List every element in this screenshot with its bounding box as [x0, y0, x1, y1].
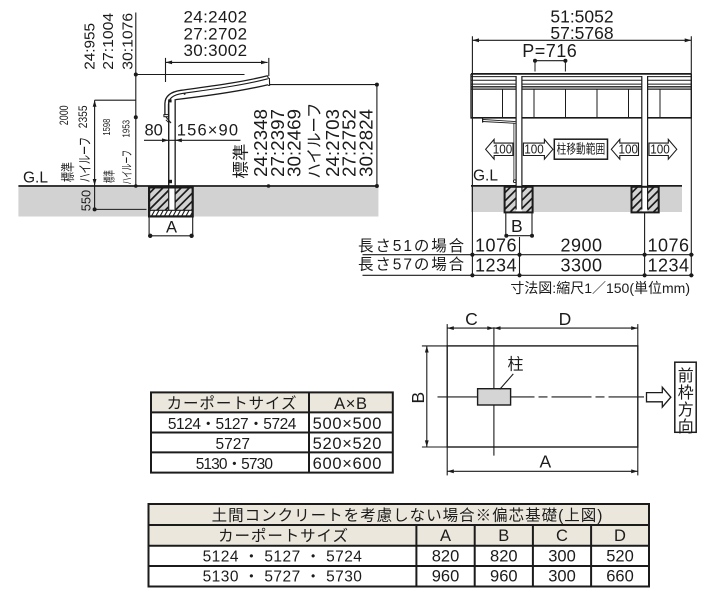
svg-text:D: D	[559, 309, 572, 329]
svg-text:100: 100	[650, 142, 670, 157]
svg-text:300: 300	[548, 568, 576, 586]
svg-text:820: 820	[432, 547, 460, 565]
svg-text:長さ57の場合: 長さ57の場合	[358, 255, 466, 273]
svg-text:カーポートサイズ: カーポートサイズ	[218, 527, 349, 545]
svg-text:P=716: P=716	[522, 41, 577, 61]
svg-text:660: 660	[606, 568, 634, 586]
svg-text:A×B: A×B	[334, 395, 367, 413]
svg-text:標準: 標準	[102, 170, 117, 183]
svg-text:820: 820	[490, 547, 518, 565]
svg-text:80: 80	[145, 122, 163, 140]
svg-text:ハイルーフ: ハイルーフ	[120, 150, 134, 185]
svg-text:枠: 枠	[678, 384, 694, 402]
svg-text:30:1076: 30:1076	[120, 13, 137, 70]
svg-text:2900: 2900	[560, 235, 602, 255]
svg-text:5727: 5727	[216, 436, 250, 453]
svg-text:1076: 1076	[475, 235, 517, 255]
svg-text:300: 300	[548, 547, 576, 565]
svg-text:A: A	[440, 527, 451, 545]
svg-text:30:2824: 30:2824	[356, 109, 376, 177]
svg-text:標準: 標準	[60, 162, 76, 182]
svg-text:5130 ・ 5727 ・ 5730: 5130 ・ 5727 ・ 5730	[203, 569, 363, 586]
svg-text:向: 向	[678, 418, 694, 436]
svg-text:30:2469: 30:2469	[285, 109, 305, 177]
svg-text:長さ51の場合: 長さ51の場合	[358, 237, 466, 255]
svg-text:A: A	[539, 452, 551, 472]
svg-text:B: B	[408, 392, 428, 404]
svg-text:5124 ・ 5127 ・ 5724: 5124 ・ 5127 ・ 5724	[203, 548, 363, 565]
svg-text:寸法図:縮尺1／150(単位mm): 寸法図:縮尺1／150(単位mm)	[510, 280, 690, 296]
svg-text:960: 960	[432, 568, 460, 586]
svg-text:960: 960	[490, 568, 518, 586]
svg-text:前: 前	[678, 367, 694, 385]
svg-text:156×90: 156×90	[177, 122, 239, 140]
svg-text:3300: 3300	[560, 255, 602, 275]
svg-text:D: D	[614, 527, 626, 545]
svg-text:550: 550	[78, 190, 93, 212]
svg-text:柱移動範囲: 柱移動範囲	[557, 142, 606, 157]
svg-text:ハイルーフ: ハイルーフ	[77, 137, 93, 183]
svg-text:方: 方	[678, 401, 694, 419]
svg-text:ハイルーフ: ハイルーフ	[306, 103, 324, 179]
svg-text:1953: 1953	[121, 120, 132, 138]
svg-text:2355: 2355	[78, 106, 90, 129]
svg-text:カーポートサイズ: カーポートサイズ	[167, 395, 298, 413]
svg-text:C: C	[465, 309, 478, 329]
svg-text:G.L: G.L	[473, 168, 498, 185]
svg-text:5130・5730: 5130・5730	[196, 456, 274, 473]
svg-text:1598: 1598	[102, 118, 113, 135]
svg-text:100: 100	[524, 142, 544, 157]
svg-text:柱: 柱	[508, 356, 524, 374]
svg-text:C: C	[556, 527, 568, 545]
svg-text:B: B	[498, 527, 509, 545]
svg-text:A: A	[166, 218, 177, 236]
svg-text:100: 100	[493, 142, 513, 157]
svg-text:100: 100	[619, 142, 639, 157]
svg-text:5124・5127・5724: 5124・5127・5724	[168, 416, 297, 433]
svg-text:520: 520	[606, 547, 634, 565]
svg-text:27:1004: 27:1004	[100, 13, 117, 70]
svg-text:土間コンクリートを考慮しない場合※偏芯基礎(上図): 土間コンクリートを考慮しない場合※偏芯基礎(上図)	[212, 506, 604, 524]
svg-text:500×500: 500×500	[313, 415, 383, 433]
svg-text:520×520: 520×520	[313, 435, 383, 453]
svg-text:標準: 標準	[231, 144, 250, 179]
svg-text:2000: 2000	[59, 105, 71, 125]
svg-text:1234: 1234	[475, 255, 517, 275]
svg-text:B: B	[511, 216, 523, 236]
svg-text:G.L: G.L	[23, 169, 48, 186]
svg-text:1234: 1234	[647, 255, 689, 275]
svg-text:1076: 1076	[647, 235, 689, 255]
svg-text:600×600: 600×600	[313, 455, 383, 473]
svg-text:24:955: 24:955	[81, 23, 98, 70]
svg-text:30:3002: 30:3002	[184, 41, 248, 60]
